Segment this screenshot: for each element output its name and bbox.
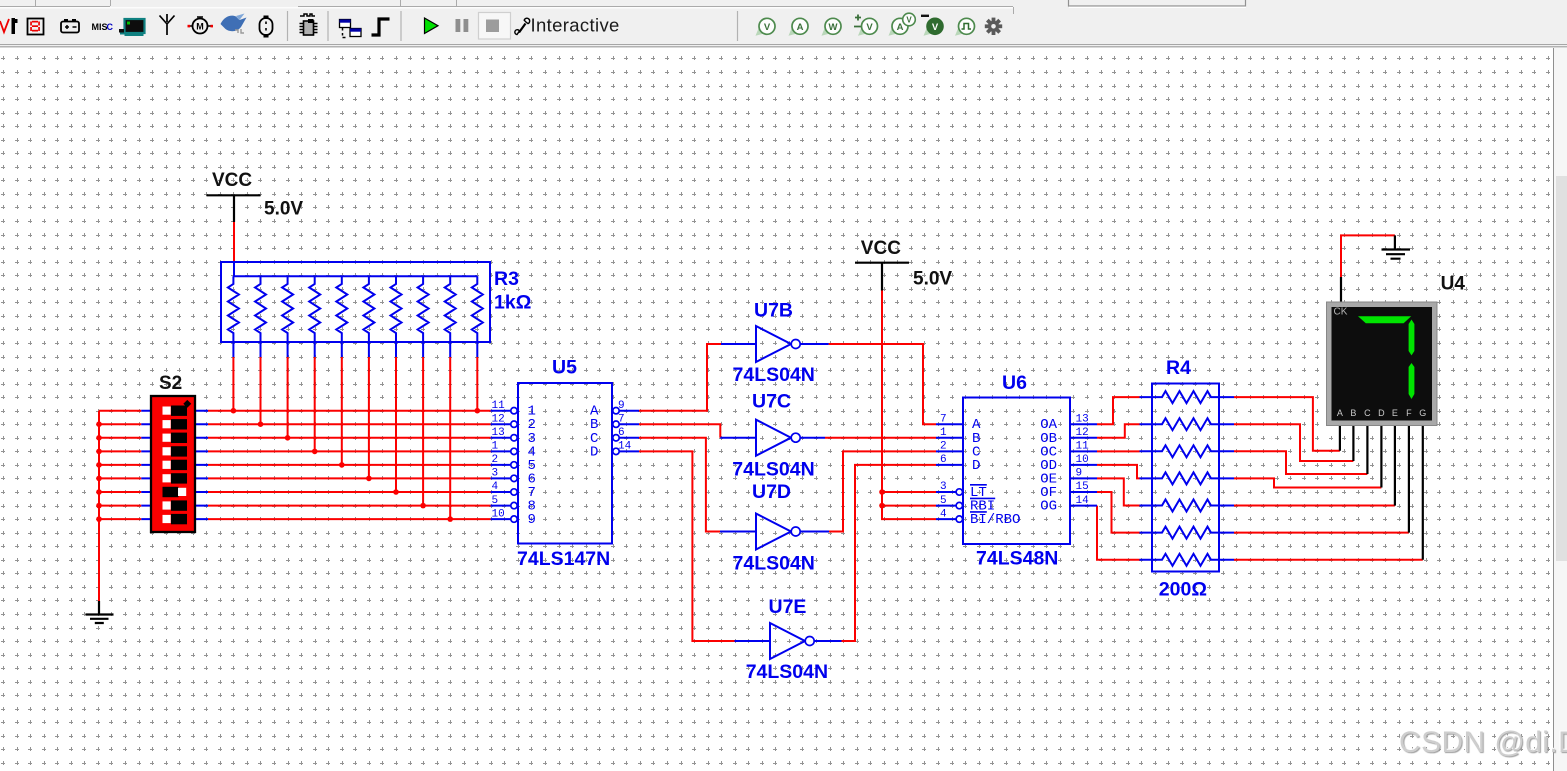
svg-text:6: 6 [940,454,947,466]
svg-text:MIS: MIS [92,22,108,32]
svg-text:10: 10 [492,508,505,520]
svg-text:C: C [1364,408,1371,418]
svg-text:R4: R4 [1166,357,1191,379]
svg-text:10: 10 [1076,454,1089,466]
svg-text:200Ω: 200Ω [1159,579,1207,601]
svg-text:F: F [1406,408,1412,418]
svg-text:11: 11 [1076,441,1090,453]
svg-text:7: 7 [618,413,625,425]
svg-text:1: 1 [492,441,499,453]
svg-text:14: 14 [618,441,632,453]
svg-text:4: 4 [940,508,947,520]
svg-text:C: C [107,22,114,32]
svg-text:13: 13 [492,427,505,439]
svg-text:1: 1 [940,427,947,439]
svg-text:U7C: U7C [752,391,791,413]
svg-text:5: 5 [492,495,499,507]
svg-text:A: A [797,22,804,33]
svg-text:14: 14 [1076,495,1090,507]
svg-text:U7E: U7E [769,596,807,618]
svg-text:9: 9 [618,400,625,412]
svg-text:Interactive: Interactive [531,15,620,36]
svg-text:D: D [972,458,980,474]
svg-text:U4: U4 [1441,274,1466,295]
svg-text:B: B [1350,408,1356,418]
svg-text:D: D [1378,408,1385,418]
svg-text:5.0V: 5.0V [264,199,303,220]
svg-text:12: 12 [1076,427,1089,439]
svg-text:V: V [932,22,939,33]
svg-text:74LS04N: 74LS04N [733,364,815,386]
svg-text:74LS04N: 74LS04N [733,553,815,575]
svg-text:74LS48N: 74LS48N [976,548,1058,570]
svg-text:U7D: U7D [752,481,791,503]
svg-text:S2: S2 [159,373,182,394]
svg-text:74LS04N: 74LS04N [732,459,814,481]
svg-text:15: 15 [1076,481,1089,493]
svg-text:1kΩ: 1kΩ [494,292,531,314]
svg-text:V: V [906,16,912,25]
svg-text:6: 6 [618,427,625,439]
svg-text:D: D [590,444,598,460]
svg-text:5: 5 [940,495,947,507]
svg-text:7: 7 [940,413,947,425]
svg-text:3: 3 [940,481,947,493]
svg-text:11: 11 [492,400,506,412]
svg-text:V: V [764,22,771,33]
svg-text:R3: R3 [494,268,519,290]
svg-text:74LS147N: 74LS147N [517,548,610,570]
svg-text:CK: CK [1334,307,1348,318]
svg-text:9: 9 [528,512,536,528]
svg-text:U6: U6 [1002,372,1027,394]
svg-text:M: M [196,22,204,32]
svg-text:OG: OG [1040,499,1057,515]
svg-text:VCC: VCC [212,170,252,191]
svg-text:4: 4 [492,481,499,493]
svg-text:VCC: VCC [861,238,901,259]
svg-text:BI/RBO: BI/RBO [970,512,1020,528]
svg-text:2: 2 [492,454,499,466]
svg-text:5.0V: 5.0V [913,269,952,290]
svg-text:U5: U5 [552,357,577,379]
svg-text:12: 12 [492,413,505,425]
svg-text:U7B: U7B [754,300,793,322]
svg-text:V: V [866,22,873,33]
svg-text:3: 3 [492,468,499,480]
svg-text:13: 13 [1076,413,1089,425]
svg-text:W: W [829,22,838,33]
svg-text:2: 2 [940,441,947,453]
svg-text:A: A [897,22,904,33]
svg-text:G: G [1419,408,1426,418]
svg-text:E: E [1392,408,1398,418]
svg-text:74LS04N: 74LS04N [746,661,828,683]
svg-text:A: A [1337,408,1343,418]
svg-text:9: 9 [1076,468,1083,480]
